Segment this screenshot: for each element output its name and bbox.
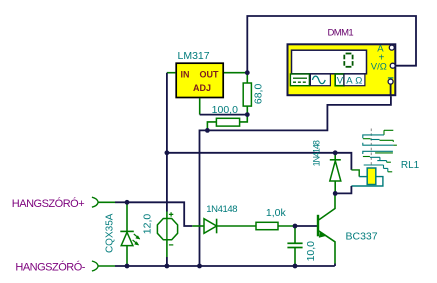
svg-text:10,0: 10,0 xyxy=(305,241,317,262)
relay contact 2 xyxy=(363,151,393,172)
wire diode D2 anode lead xyxy=(192,225,204,227)
diode D2 1N4148 horizontal xyxy=(204,219,217,234)
wire source bottom lead xyxy=(166,240,168,257)
wire source top lead xyxy=(166,212,168,219)
svg-text:LM317: LM317 xyxy=(178,50,210,62)
display digit 0 seven segment xyxy=(344,54,352,67)
wire capacitor C1 bottom lead xyxy=(294,248,296,266)
wire LM317 OUT lead xyxy=(224,72,247,74)
resistor R3 1,0k horizontal xyxy=(256,222,278,229)
junction node R1 left xyxy=(205,128,210,133)
DMM terminal A xyxy=(389,45,394,50)
resistor R2 68,0 vertical xyxy=(243,73,251,115)
DMM AC icon box xyxy=(310,74,330,86)
junction node relay top xyxy=(333,150,338,155)
wire top loop from LM317 OUT node to DMM V/Ohm terminal xyxy=(247,16,416,73)
DMM V mode box xyxy=(335,74,344,87)
svg-text:12,0: 12,0 xyxy=(142,214,154,235)
connector HANGSZORO- xyxy=(92,261,98,271)
wire HANGSZORO+ to LED node xyxy=(115,201,127,203)
svg-text:A: A xyxy=(346,76,353,87)
junction node LED bottom xyxy=(125,264,130,269)
wire LED top lead xyxy=(126,202,128,231)
wire diode D2 cathode to R3 xyxy=(217,225,256,227)
svg-text:IN: IN xyxy=(181,69,190,79)
wire R3 right lead to base node xyxy=(278,225,295,227)
wire HANGSZORO- lead xyxy=(98,265,115,267)
svg-text:100,0: 100,0 xyxy=(212,104,238,116)
wire mid horizontal from left rail to relay node xyxy=(167,152,335,154)
svg-text:1N4148: 1N4148 xyxy=(206,204,237,215)
wire source bottom to ground rail xyxy=(166,257,168,266)
wire LED bottom lead xyxy=(126,246,128,266)
wire R1 100,0 left lead xyxy=(207,122,216,130)
svg-text:1N4148: 1N4148 xyxy=(312,140,322,166)
wire capacitor C1 top lead xyxy=(294,226,296,243)
junction node left rail mid xyxy=(165,150,170,155)
wire relay coil return xyxy=(351,177,383,186)
svg-text:1,0k: 1,0k xyxy=(266,207,287,219)
junction node rail bottom x200 xyxy=(197,264,202,269)
transistor Q1 BC337 xyxy=(318,193,335,266)
connector HANGSZORO+ xyxy=(92,197,98,207)
wire base node to transistor base xyxy=(295,225,317,227)
svg-text:68,0: 68,0 xyxy=(252,84,264,105)
DMM terminal V/Ohm xyxy=(390,63,395,68)
relay contact common mid xyxy=(363,143,397,146)
wire ground rail bottom xyxy=(115,265,335,267)
diode D1 1N4148 vertical at relay xyxy=(330,153,341,194)
resistor R1 100,0 horizontal xyxy=(216,118,239,126)
wire HANGSZORO+ lead xyxy=(98,201,115,203)
wire left vertical rail from IN pin down to source V1 xyxy=(166,73,168,212)
svg-text:HANGSZÓRÓ-: HANGSZÓRÓ- xyxy=(15,260,85,273)
svg-text:ADJ: ADJ xyxy=(193,83,211,93)
svg-text:V: V xyxy=(337,76,344,87)
DMM A Ohm box xyxy=(344,74,365,87)
LED D3 CQX35A xyxy=(120,231,140,245)
svg-text:HANGSZÓRÓ+: HANGSZÓRÓ+ xyxy=(12,197,84,210)
wire ADJ to R2 node xyxy=(200,114,248,116)
capacitor C1 10,0 xyxy=(287,243,302,247)
wire R1 100,0 right lead xyxy=(240,115,248,122)
wire LED node to bend down to diode D2 xyxy=(127,202,192,226)
junction node relay bottom xyxy=(333,191,338,196)
svg-text:CQX35A: CQX35A xyxy=(104,213,115,253)
wire to DMM COM terminal xyxy=(207,96,391,130)
wire relay coil feed xyxy=(335,153,351,170)
relay dashed actuator line xyxy=(370,129,372,168)
junction node at OUT pin xyxy=(245,70,250,75)
relay RL1 coil xyxy=(367,168,376,185)
wire LM317 ADJ lead xyxy=(199,98,201,114)
junction node source bottom xyxy=(165,264,170,269)
junction node LED top xyxy=(125,200,130,205)
svg-text:OUT: OUT xyxy=(200,69,220,79)
relay contact 1 xyxy=(363,130,394,142)
svg-text:BC337: BC337 xyxy=(346,231,378,243)
junction node ADJ / R2 bottom xyxy=(245,112,250,117)
svg-text:DMM1: DMM1 xyxy=(328,28,354,39)
multimeter DMM1 body xyxy=(288,44,396,95)
wire LM317 IN lead xyxy=(167,72,176,74)
DMM terminal COM xyxy=(388,78,393,96)
wire node down to ground rail xyxy=(200,130,208,266)
DMM DC icon box xyxy=(290,74,309,86)
source V1 12,0 octagon xyxy=(157,212,177,245)
junction node cap bottom xyxy=(293,264,298,269)
svg-text:Ω: Ω xyxy=(355,76,362,87)
svg-text:RL1: RL1 xyxy=(401,160,420,171)
regulator U1 LM317 body xyxy=(176,63,223,97)
svg-text:V/Ω: V/Ω xyxy=(371,61,387,72)
junction node base xyxy=(293,224,298,229)
